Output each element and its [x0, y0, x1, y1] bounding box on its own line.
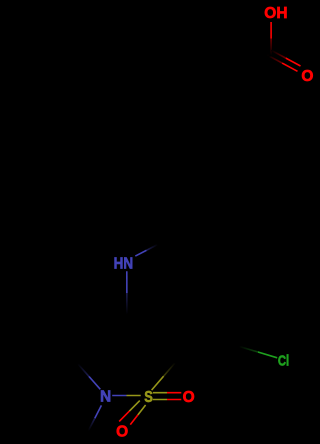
- svg-text:O: O: [116, 423, 128, 440]
- svg-text:Cl: Cl: [278, 354, 289, 370]
- bond C1=O2 double (carbonyl): [267, 50, 301, 71]
- right benzene ring (carbons, black on black): [127, 315, 239, 371]
- bond N3-C11 (amine N down to ring CH): [126, 271, 128, 314]
- svg-text:O: O: [183, 389, 195, 406]
- bond N4-CH3 (N-methyl): [88, 405, 101, 430]
- svg-text:S: S: [144, 389, 153, 406]
- bond CAr-Cl: [239, 346, 277, 358]
- svg-text:HN: HN: [114, 255, 134, 272]
- bond S1=O4 double (lower-left sulfonyl O): [119, 401, 145, 425]
- left benzene ring (carbons, black on black): [24, 303, 127, 384]
- bond S1-ArR1 (S to right aryl C): [152, 363, 176, 391]
- wire chain C1-C2-C3-C4-C5-C6-C7 (carbon chain, black on black): [158, 55, 271, 244]
- bond N4-S1: [112, 395, 141, 397]
- bond ArL1-N4 (aryl C to sulfonamide N): [78, 364, 101, 390]
- svg-text:N: N: [100, 389, 111, 406]
- svg-text:OH: OH: [264, 5, 287, 22]
- svg-text:O: O: [301, 68, 313, 85]
- bond O1-C1 (hydroxyl O to carboxyl C): [270, 22, 272, 55]
- bond S1=O3 double (right sulfonyl O): [153, 393, 182, 400]
- bond C7-N3 (chain to amine N): [135, 245, 157, 257]
